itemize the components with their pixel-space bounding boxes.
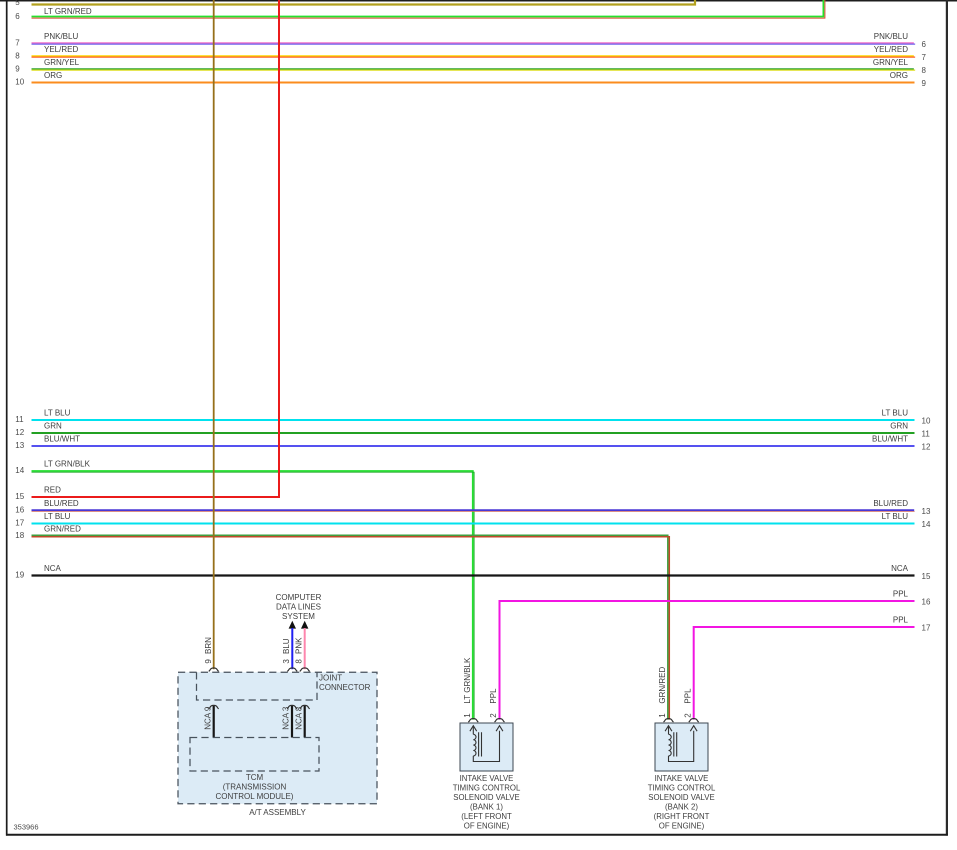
solenoid valve box U2 (460, 723, 513, 771)
label PPL pin 2 (683, 688, 692, 718)
svg-text:YEL/RED: YEL/RED (44, 45, 78, 54)
connector arc below joint connector x=304.7 (300, 705, 310, 708)
connector arc at assembly entry x=213.7 (209, 668, 219, 671)
svg-text:11: 11 (922, 429, 931, 438)
svg-text:1: 1 (463, 713, 472, 718)
svg-text:(BANK 2): (BANK 2) (665, 803, 698, 812)
svg-text:OF ENGINE): OF ENGINE) (464, 822, 510, 831)
svg-text:LT BLU: LT BLU (44, 512, 71, 521)
label BRN pin 9 (204, 637, 213, 664)
svg-text:GRN: GRN (890, 422, 908, 431)
label PPL pin 2 (489, 688, 498, 718)
wire 17 LT BLU (15, 512, 931, 529)
svg-text:CONNECTOR: CONNECTOR (319, 683, 371, 692)
svg-text:(RIGHT FRONT: (RIGHT FRONT (654, 812, 710, 821)
wire 8 YEL/RED (15, 45, 926, 62)
label GRN/RED pin 1 (658, 666, 667, 717)
svg-text:PPL: PPL (893, 616, 909, 625)
connector arc pin 2 of U3 (689, 719, 699, 722)
svg-text:SYSTEM: SYSTEM (282, 612, 315, 621)
svg-text:2: 2 (683, 713, 692, 718)
wire PPL (right 17, down to solenoid 2 pin 2) (694, 616, 931, 720)
connector arc pin 2 of U2 (495, 719, 505, 722)
svg-text:A/T ASSEMBLY: A/T ASSEMBLY (249, 808, 306, 817)
arrow up PNK (301, 621, 308, 629)
connector arc below joint connector x=292.0 (287, 705, 297, 708)
wire NCA 9 (203, 706, 213, 738)
svg-text:PNK/BLU: PNK/BLU (874, 32, 908, 41)
svg-text:BLU: BLU (282, 638, 291, 654)
svg-text:12: 12 (922, 442, 931, 451)
svg-text:PPL: PPL (683, 688, 692, 704)
svg-text:INTAKE VALVE: INTAKE VALVE (655, 774, 709, 783)
wire BRN (from top to joint connector) (213, 0, 215, 669)
svg-text:(TRANSMISSION: (TRANSMISSION (223, 783, 287, 792)
svg-text:8: 8 (922, 66, 927, 75)
svg-text:TIMING CONTROL: TIMING CONTROL (453, 784, 521, 793)
svg-text:ORG: ORG (44, 71, 62, 80)
svg-text:PPL: PPL (489, 688, 498, 704)
svg-text:GRN/YEL: GRN/YEL (873, 58, 909, 67)
svg-text:9: 9 (15, 65, 20, 74)
svg-text:GRN/YEL: GRN/YEL (44, 58, 80, 67)
wire 6 LT GRN/RED (to top) (15, 0, 825, 21)
caption solenoid U2 (453, 774, 521, 831)
label PNK pin 8 (294, 637, 303, 664)
svg-text:17: 17 (922, 623, 931, 632)
svg-text:LT BLU: LT BLU (882, 512, 909, 521)
caption solenoid U3 (648, 774, 716, 831)
wire 19 NCA (15, 564, 931, 581)
svg-text:CONTROL MODULE): CONTROL MODULE) (216, 792, 294, 801)
arrow up BLU (289, 621, 296, 629)
connector arc below joint connector x=213.7 (209, 705, 219, 708)
svg-text:BLU/WHT: BLU/WHT (872, 435, 908, 444)
svg-text:GRN/RED: GRN/RED (658, 666, 667, 703)
svg-text:BLU/RED: BLU/RED (873, 499, 908, 508)
svg-text:6: 6 (922, 40, 927, 49)
TCM box (190, 738, 319, 802)
svg-text:17: 17 (15, 519, 24, 528)
svg-text:(LEFT FRONT: (LEFT FRONT (461, 812, 512, 821)
svg-text:6: 6 (15, 12, 20, 21)
svg-text:13: 13 (922, 507, 931, 516)
svg-text:NCA 8: NCA 8 (294, 706, 303, 730)
connector arc pin 1 of U3 (664, 719, 674, 722)
svg-text:5: 5 (15, 0, 20, 7)
svg-text:10: 10 (15, 78, 24, 87)
svg-text:19: 19 (15, 571, 24, 580)
svg-text:3: 3 (282, 659, 291, 664)
solenoid valve box U3 (655, 723, 708, 771)
svg-text:ORG: ORG (890, 71, 908, 80)
svg-text:NCA 3: NCA 3 (282, 706, 291, 730)
svg-text:RED: RED (44, 486, 61, 495)
svg-text:LT BLU: LT BLU (882, 409, 909, 418)
svg-text:15: 15 (15, 492, 24, 501)
svg-text:14: 14 (922, 520, 931, 529)
svg-text:1: 1 (658, 713, 667, 718)
svg-text:(BANK 1): (BANK 1) (470, 803, 503, 812)
wire 14 LT GRN/BLK (down to solenoid 1 pin 1) (15, 460, 474, 720)
svg-text:YEL/RED: YEL/RED (874, 45, 908, 54)
wire PNK (304, 628, 306, 669)
wire PPL (right 16, down to solenoid 1 pin 2) (500, 590, 931, 720)
svg-text:353966: 353966 (14, 822, 39, 831)
wire 7 PNK/BLU (15, 32, 926, 49)
svg-text:GRN: GRN (44, 422, 62, 431)
wire 13 BLU/WHT (15, 435, 931, 452)
svg-text:PPL: PPL (893, 590, 909, 599)
solenoid U3 internal coil (665, 726, 697, 762)
svg-text:BRN: BRN (204, 637, 213, 654)
svg-text:JOINT: JOINT (319, 674, 342, 683)
connector arc at assembly entry x=292.3 (287, 668, 297, 671)
svg-text:LT BLU: LT BLU (44, 409, 71, 418)
svg-text:2: 2 (489, 713, 498, 718)
A/T assembly box (178, 672, 377, 817)
svg-text:11: 11 (15, 415, 24, 424)
svg-text:PNK/BLU: PNK/BLU (44, 32, 78, 41)
svg-text:18: 18 (15, 531, 24, 540)
svg-text:14: 14 (15, 466, 24, 475)
wire 9 GRN/YEL (15, 58, 926, 75)
svg-text:12: 12 (15, 428, 24, 437)
svg-text:9: 9 (204, 659, 213, 664)
svg-text:13: 13 (15, 441, 24, 450)
svg-text:DATA LINES: DATA LINES (276, 603, 321, 612)
wire NCA 3 (282, 706, 292, 738)
svg-text:BLU/WHT: BLU/WHT (44, 435, 80, 444)
wire 10 ORG (15, 71, 926, 88)
wire 11 LT BLU (15, 409, 931, 426)
svg-text:10: 10 (922, 416, 931, 425)
svg-text:16: 16 (922, 597, 931, 606)
wire 18 GRN/RED (down to solenoid 2 pin 1) (15, 525, 669, 720)
label BLU pin 3 (282, 638, 291, 663)
svg-text:BLU/RED: BLU/RED (44, 499, 79, 508)
svg-text:SOLENOID VALVE: SOLENOID VALVE (453, 793, 519, 802)
svg-text:8: 8 (294, 659, 303, 664)
figure number (14, 822, 39, 831)
svg-text:LT GRN/BLK: LT GRN/BLK (44, 460, 91, 469)
svg-text:8: 8 (15, 52, 20, 61)
label LT GRN/BLK pin 1 (463, 657, 472, 718)
wire 5 DK YEL (to top) (15, 0, 695, 7)
svg-text:NCA: NCA (891, 564, 909, 573)
connector arc at assembly entry x=304.7 (300, 668, 310, 671)
wire 15 RED (up to top) (15, 0, 279, 501)
svg-text:7: 7 (15, 39, 20, 48)
svg-text:LT GRN/RED: LT GRN/RED (44, 7, 92, 16)
svg-text:PNK: PNK (294, 637, 303, 654)
svg-text:9: 9 (922, 79, 927, 88)
svg-text:15: 15 (922, 572, 931, 581)
svg-text:16: 16 (15, 506, 24, 515)
svg-text:COMPUTER: COMPUTER (276, 593, 322, 602)
computer data lines system node (276, 593, 322, 621)
svg-text:TIMING CONTROL: TIMING CONTROL (648, 784, 716, 793)
connector arc pin 1 of U2 (468, 719, 478, 722)
svg-text:SOLENOID VALVE: SOLENOID VALVE (648, 793, 714, 802)
wire BLU (291, 628, 293, 669)
wire 12 GRN (15, 422, 930, 439)
svg-text:LT GRN/BLK: LT GRN/BLK (463, 657, 472, 704)
svg-text:NCA: NCA (44, 564, 62, 573)
wire NCA 8 (294, 706, 304, 738)
svg-text:GRN/RED: GRN/RED (44, 525, 81, 534)
svg-text:INTAKE VALVE: INTAKE VALVE (460, 774, 514, 783)
svg-text:NCA 9: NCA 9 (203, 706, 212, 730)
wire 16 BLU/RED (15, 499, 931, 516)
svg-text:7: 7 (922, 53, 927, 62)
svg-text:TCM: TCM (246, 773, 264, 782)
joint connector box U1 (197, 672, 371, 700)
svg-text:OF ENGINE): OF ENGINE) (659, 822, 705, 831)
solenoid U2 internal coil (470, 726, 503, 762)
